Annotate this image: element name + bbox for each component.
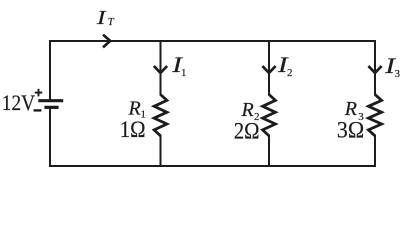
svg-text:1Ω: 1Ω bbox=[120, 117, 146, 142]
svg-text:2Ω: 2Ω bbox=[234, 118, 260, 143]
svg-text:1: 1 bbox=[181, 67, 187, 79]
svg-text:12V: 12V bbox=[2, 90, 35, 115]
svg-text:2: 2 bbox=[287, 67, 293, 79]
svg-text:I: I bbox=[96, 7, 107, 28]
svg-text:3Ω: 3Ω bbox=[337, 117, 364, 142]
svg-text:T: T bbox=[108, 16, 115, 28]
svg-text:3: 3 bbox=[395, 68, 401, 80]
